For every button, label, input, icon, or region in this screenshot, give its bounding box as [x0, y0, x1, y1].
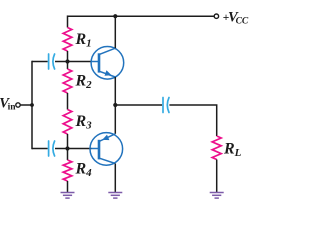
wire lower base lead — [68, 148, 92, 150]
wire collector Q2 to ground — [114, 164, 116, 193]
wire input node to bottom cap — [32, 148, 48, 150]
wire input vertical — [31, 62, 34, 149]
wire upper base lead — [68, 61, 92, 63]
wire emitters Q1-Q2 — [114, 77, 116, 134]
wire output node to cap — [115, 104, 162, 106]
ground below RL — [210, 193, 224, 199]
wire output cap to RL corner — [169, 105, 216, 136]
svg-text:in: in — [8, 102, 17, 112]
ground below R4 — [61, 193, 75, 199]
node input junction — [30, 103, 34, 107]
capacitor C1 (input to upper base) — [49, 54, 55, 69]
transistor Q1 (upper, npn) — [91, 47, 124, 80]
wire RL to ground — [216, 160, 218, 193]
node upper base junction — [65, 59, 69, 63]
wire collector Q1 to rail — [114, 16, 116, 48]
wire from rail down to R1 — [67, 15, 69, 27]
transistor Q2 (lower, pnp) — [90, 133, 123, 166]
wire R2 to R3 — [67, 93, 69, 110]
node output junction — [113, 103, 117, 107]
terminal +VCC — [214, 14, 218, 18]
wire Vin to input node — [20, 104, 32, 106]
wire input node to top cap — [32, 61, 48, 63]
node lower base junction — [65, 146, 69, 150]
resistor R4 — [63, 160, 72, 181]
wire top rail VCC — [68, 15, 214, 17]
wire top cap to upper base node — [55, 61, 68, 63]
wire R4 to ground — [67, 181, 69, 193]
resistor R3 — [63, 110, 72, 135]
capacitor C3 (output coupling) — [163, 98, 169, 113]
capacitor C2 (input to lower base) — [49, 141, 55, 156]
resistor RL — [212, 136, 221, 160]
resistor R1 — [63, 28, 72, 52]
wire R3 to lower base node — [67, 134, 69, 160]
svg-text:CC: CC — [236, 16, 249, 26]
wire R1 to upper base node — [67, 51, 69, 69]
ground below Q2 — [108, 193, 122, 199]
node collector junction at rail — [113, 14, 117, 18]
wire bottom cap to lower base node — [55, 148, 68, 150]
terminal Vin — [16, 103, 20, 107]
resistor R2 — [63, 69, 72, 93]
